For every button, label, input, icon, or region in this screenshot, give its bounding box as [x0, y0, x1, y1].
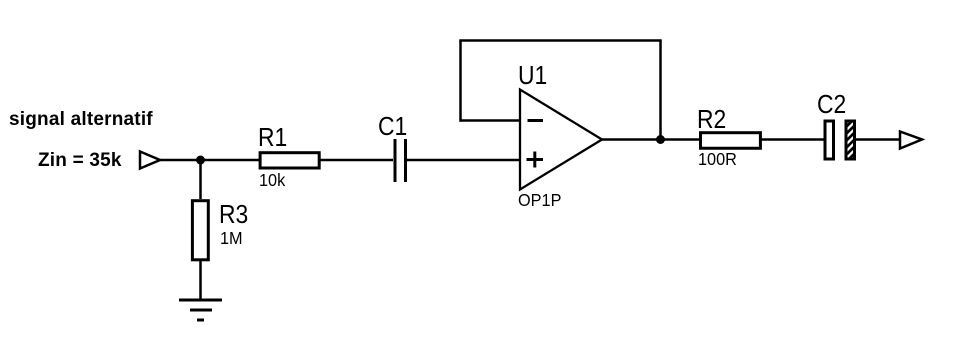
- label U1: [518, 62, 547, 88]
- label R1: [258, 124, 287, 150]
- capacitor C2 left plate: [825, 121, 834, 159]
- op-amp minus sign: [528, 119, 544, 122]
- wire minus input: [461, 119, 521, 122]
- output port arrow: [900, 132, 922, 149]
- label OP1P: [518, 192, 561, 210]
- node junction output: [656, 135, 665, 144]
- wire R1 to C1: [319, 159, 393, 162]
- resistor R3: [192, 201, 208, 260]
- label 10k: [259, 172, 285, 190]
- wire R3 to ground: [199, 260, 202, 300]
- wire R2 to C2: [761, 138, 825, 141]
- wire junction down to R3: [199, 160, 202, 199]
- wire input to R1: [160, 159, 261, 162]
- wire C1 to op-amp + input: [407, 159, 520, 162]
- op-amp U1: [520, 90, 602, 190]
- wire C2 to output arrow: [856, 138, 900, 141]
- capacitor C1: [395, 139, 406, 182]
- feedback wire right vertical: [659, 41, 662, 140]
- label 1M: [220, 230, 243, 248]
- label Zin = 35k: [38, 151, 122, 170]
- label signal alternatif: [9, 110, 153, 129]
- resistor R1: [260, 153, 319, 168]
- op-amp plus sign: [527, 152, 544, 168]
- input port arrow: [140, 152, 160, 169]
- feedback wire left vertical: [459, 41, 462, 122]
- label 100R: [698, 151, 737, 169]
- wire op-amp output to R2: [602, 138, 702, 141]
- label R2: [697, 106, 726, 132]
- label C1: [378, 113, 407, 139]
- label C2: [817, 91, 846, 117]
- feedback wire top: [459, 39, 661, 42]
- ground: [179, 300, 222, 320]
- resistor R2: [701, 133, 761, 149]
- label R3: [219, 201, 248, 227]
- node junction input: [196, 156, 205, 165]
